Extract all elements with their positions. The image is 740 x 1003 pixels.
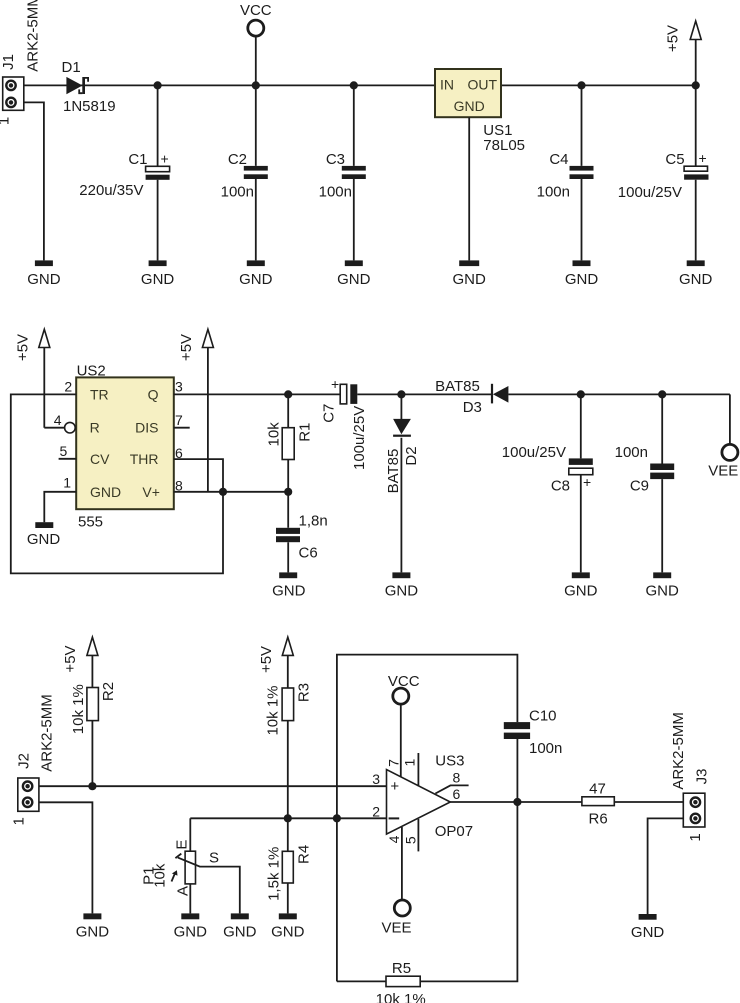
svg-text:100u/25V: 100u/25V xyxy=(618,184,682,201)
capacitor C7 100u/25V xyxy=(320,376,401,470)
capacitor C10 100n xyxy=(504,708,563,803)
svg-text:TR: TR xyxy=(90,386,109,402)
svg-text:VEE: VEE xyxy=(708,463,738,480)
svg-text:R: R xyxy=(90,420,100,436)
svg-text:+5V: +5V xyxy=(15,334,32,361)
svg-text:R5: R5 xyxy=(392,960,411,977)
svg-text:BAT85: BAT85 xyxy=(385,449,402,494)
svg-text:C2: C2 xyxy=(228,151,247,168)
terminal VCC (op-amp) xyxy=(388,673,420,778)
svg-text:CV: CV xyxy=(90,451,110,467)
power +5V arrow (R2) xyxy=(62,637,98,687)
svg-text:220u/35V: 220u/35V xyxy=(79,182,143,199)
svg-text:US2: US2 xyxy=(77,363,106,380)
svg-text:GND: GND xyxy=(27,271,61,288)
svg-text:Q: Q xyxy=(148,386,159,402)
ground (R4) xyxy=(271,913,305,940)
svg-text:C9: C9 xyxy=(630,478,649,495)
node C3 junction xyxy=(350,81,358,89)
ground (D2) xyxy=(385,572,419,599)
reset bubble pin 4 xyxy=(44,422,75,433)
svg-text:C7: C7 xyxy=(320,404,337,423)
power +5V arrow (top) xyxy=(665,21,702,85)
svg-text:J1: J1 xyxy=(0,54,17,70)
ground (C4) xyxy=(565,260,599,288)
ground (J2) xyxy=(76,913,110,940)
svg-text:+: + xyxy=(390,778,399,795)
svg-text:D2: D2 xyxy=(403,446,420,465)
terminal VEE xyxy=(708,394,738,479)
svg-text:555: 555 xyxy=(78,514,103,531)
svg-text:10k: 10k xyxy=(152,863,169,888)
capacitor C3 100n xyxy=(319,85,366,260)
svg-text:7: 7 xyxy=(385,759,401,767)
svg-text:GND: GND xyxy=(239,271,273,288)
svg-text:OUT: OUT xyxy=(467,77,497,93)
svg-text:+5V: +5V xyxy=(62,645,79,672)
svg-text:1: 1 xyxy=(402,758,418,766)
capacitor C5 100u/25V xyxy=(618,85,709,260)
svg-text:J2: J2 xyxy=(15,753,32,769)
svg-text:3: 3 xyxy=(175,379,183,395)
svg-text:GND: GND xyxy=(564,582,598,599)
svg-text:6: 6 xyxy=(453,786,461,802)
ground (C6) xyxy=(272,572,306,599)
connector J3 xyxy=(670,712,710,842)
wire inverting input xyxy=(190,817,386,819)
wire op-amp output xyxy=(450,801,683,803)
timer US2 555 xyxy=(76,363,174,531)
connector J2 xyxy=(11,694,56,825)
svg-text:US3: US3 xyxy=(435,752,464,769)
ground (J3) xyxy=(631,914,665,941)
node R3/R4 junction xyxy=(284,814,292,822)
ground (C1) xyxy=(141,260,175,288)
pin 6 label xyxy=(175,445,183,461)
svg-text:R1: R1 xyxy=(296,423,313,442)
diode D1 1N5819 xyxy=(62,59,116,115)
svg-text:VEE: VEE xyxy=(381,919,411,936)
svg-text:2: 2 xyxy=(372,804,380,820)
diode D3 BAT85 xyxy=(401,378,730,416)
svg-text:D1: D1 xyxy=(62,59,81,76)
svg-text:BAT85: BAT85 xyxy=(435,378,480,395)
svg-text:R6: R6 xyxy=(589,811,608,828)
node R2 junction xyxy=(88,782,96,790)
ground (C3) xyxy=(337,260,371,288)
svg-text:10k 1%: 10k 1% xyxy=(70,684,87,734)
node R1 top junction xyxy=(284,390,292,398)
node C9 junction xyxy=(658,390,666,398)
wire TR feedback loop xyxy=(11,394,223,573)
node C2 junction xyxy=(252,81,260,89)
resistor R6 47 xyxy=(582,781,614,828)
ground (P1 S) xyxy=(223,913,257,940)
svg-text:D3: D3 xyxy=(463,399,482,416)
svg-text:+5V: +5V xyxy=(665,25,682,52)
svg-text:100n: 100n xyxy=(615,444,648,461)
svg-text:1: 1 xyxy=(0,117,13,125)
resistor R2 10k 1% xyxy=(70,682,117,786)
resistor R3 10k 1% xyxy=(265,683,313,818)
wire noninverting input xyxy=(39,785,387,787)
node D2 junction xyxy=(397,390,405,398)
svg-text:GND: GND xyxy=(565,271,599,288)
svg-text:GND: GND xyxy=(223,924,257,941)
svg-text:1: 1 xyxy=(63,475,71,491)
terminal VCC xyxy=(240,2,272,85)
wire J2 pin1 to GND xyxy=(39,802,93,913)
diode D2 BAT85 xyxy=(385,394,420,572)
svg-text:E: E xyxy=(174,840,191,850)
svg-text:1: 1 xyxy=(11,817,28,825)
svg-text:100n: 100n xyxy=(319,184,352,201)
ground (C5) xyxy=(679,260,713,288)
svg-text:C3: C3 xyxy=(326,151,345,168)
pin 5 label xyxy=(60,443,68,459)
svg-text:+: + xyxy=(331,376,339,392)
svg-text:1,5k 1%: 1,5k 1% xyxy=(266,847,283,901)
svg-text:2: 2 xyxy=(64,379,72,395)
svg-text:C10: C10 xyxy=(529,708,557,725)
ground (C9) xyxy=(646,572,680,599)
svg-text:4: 4 xyxy=(54,412,62,428)
node output junction xyxy=(513,798,521,806)
capacitor C1 220u/35V xyxy=(79,85,169,260)
svg-text:GND: GND xyxy=(453,271,487,288)
power +5V arrow (R3) xyxy=(258,637,293,688)
wire J3 pin1 to GND xyxy=(648,818,684,914)
svg-text:5: 5 xyxy=(402,836,418,844)
pin 3 label xyxy=(175,379,183,395)
svg-text:A: A xyxy=(175,886,192,896)
op-amp US3 OP07 xyxy=(372,752,473,851)
svg-text:S: S xyxy=(209,850,219,867)
svg-text:+: + xyxy=(583,474,591,490)
svg-text:C8: C8 xyxy=(551,478,570,495)
node C5 junction xyxy=(692,81,700,89)
svg-text:GND: GND xyxy=(27,531,61,548)
capacitor C4 100n xyxy=(537,85,594,260)
svg-text:VCC: VCC xyxy=(388,673,420,690)
svg-text:J3: J3 xyxy=(693,769,710,785)
power +5V arrow (555 V+) xyxy=(178,329,213,492)
svg-text:GND: GND xyxy=(272,582,306,599)
svg-text:5: 5 xyxy=(60,443,68,459)
svg-text:GND: GND xyxy=(454,98,485,114)
wire feedback loop left/top xyxy=(337,655,518,982)
svg-text:GND: GND xyxy=(337,271,371,288)
ground (US1) xyxy=(453,260,487,288)
node C4 junction xyxy=(577,81,585,89)
node THR/V+ junction xyxy=(219,488,227,496)
svg-text:R3: R3 xyxy=(296,683,313,702)
capacitor C2 100n xyxy=(221,85,268,260)
svg-text:THR: THR xyxy=(130,451,159,467)
svg-text:GND: GND xyxy=(679,271,713,288)
connector J1 xyxy=(0,0,41,125)
svg-text:10k 1%: 10k 1% xyxy=(376,991,426,1003)
svg-text:100n: 100n xyxy=(221,184,254,201)
potentiometer P1 10k xyxy=(141,818,240,913)
pin 2 label xyxy=(64,379,72,395)
capacitor C9 100n xyxy=(615,394,675,572)
svg-text:R2: R2 xyxy=(100,682,117,701)
pin 5 CV stub xyxy=(59,458,77,460)
svg-text:100n: 100n xyxy=(537,184,570,201)
svg-text:GND: GND xyxy=(385,582,419,599)
svg-text:100u/25V: 100u/25V xyxy=(351,406,368,470)
svg-text:1: 1 xyxy=(687,833,704,841)
svg-text:10k 1%: 10k 1% xyxy=(265,685,282,735)
svg-text:78L05: 78L05 xyxy=(483,137,525,154)
svg-text:ARK2-5MM: ARK2-5MM xyxy=(39,694,56,772)
svg-text:GND: GND xyxy=(271,924,305,941)
node C1 junction xyxy=(154,81,162,89)
svg-text:ARK2-5MM: ARK2-5MM xyxy=(670,712,687,790)
svg-text:47: 47 xyxy=(589,781,606,798)
svg-text:4: 4 xyxy=(386,835,402,843)
resistor R1 10k xyxy=(265,394,313,491)
capacitor C6 1,8n xyxy=(276,492,328,573)
ground (P1 A) xyxy=(174,913,208,940)
svg-text:10k: 10k xyxy=(265,422,282,447)
pin 7 label xyxy=(175,412,183,428)
svg-text:C4: C4 xyxy=(549,151,568,168)
ground (555) xyxy=(27,522,61,548)
svg-text:100u/25V: 100u/25V xyxy=(502,444,566,461)
svg-text:GND: GND xyxy=(141,271,175,288)
svg-text:3: 3 xyxy=(372,771,380,787)
node C8 junction xyxy=(577,390,585,398)
svg-text:+5V: +5V xyxy=(258,646,275,673)
svg-text:V+: V+ xyxy=(142,484,160,500)
wire main top rail xyxy=(24,84,696,86)
svg-text:1,8n: 1,8n xyxy=(299,513,328,530)
svg-text:+: + xyxy=(699,150,707,166)
node feedback junction xyxy=(333,814,341,822)
wire V+ row xyxy=(174,491,288,493)
wire Q output xyxy=(174,393,340,395)
pin 1 label xyxy=(63,475,71,491)
svg-text:DIS: DIS xyxy=(135,420,158,436)
svg-text:IN: IN xyxy=(440,77,454,93)
svg-text:R4: R4 xyxy=(296,845,313,864)
wire 555 GND pin xyxy=(44,492,76,522)
terminal VEE (op-amp) xyxy=(381,827,411,936)
svg-text:8: 8 xyxy=(453,770,461,786)
svg-text:1N5819: 1N5819 xyxy=(63,98,116,115)
svg-text:100n: 100n xyxy=(529,740,562,757)
capacitor C8 100u/25V xyxy=(502,394,593,572)
svg-text:C6: C6 xyxy=(299,545,318,562)
power +5V arrow (555 reset) xyxy=(15,329,50,427)
svg-text:GND: GND xyxy=(76,924,110,941)
svg-text:OP07: OP07 xyxy=(435,823,473,840)
pin 4 label xyxy=(54,412,62,428)
ground (J1) xyxy=(27,260,61,288)
pin 8 label xyxy=(175,478,183,494)
wire J1 pin1 to GND xyxy=(24,102,44,260)
wire US1 GND pin xyxy=(468,117,470,260)
svg-text:VCC: VCC xyxy=(240,2,272,19)
svg-text:GND: GND xyxy=(90,484,121,500)
resistor R4 1,5k 1% xyxy=(266,818,313,913)
resistor R5 10k 1% xyxy=(376,960,426,1003)
ground (C2) xyxy=(239,260,273,288)
pin 7 DIS stub xyxy=(174,427,190,429)
svg-text:+: + xyxy=(161,151,169,167)
svg-text:7: 7 xyxy=(175,412,183,428)
wire feedback loop right/bottom xyxy=(337,802,518,981)
svg-text:GND: GND xyxy=(174,924,208,941)
svg-text:GND: GND xyxy=(631,924,665,941)
node R1 bottom junction xyxy=(284,488,292,496)
svg-text:C5: C5 xyxy=(665,151,684,168)
svg-text:C1: C1 xyxy=(128,151,147,168)
svg-text:ARK2-5MM: ARK2-5MM xyxy=(24,0,41,72)
svg-text:GND: GND xyxy=(646,582,680,599)
svg-text:+5V: +5V xyxy=(178,334,195,361)
regulator US1 78L05 xyxy=(435,69,525,154)
ground (C8) xyxy=(564,572,598,599)
